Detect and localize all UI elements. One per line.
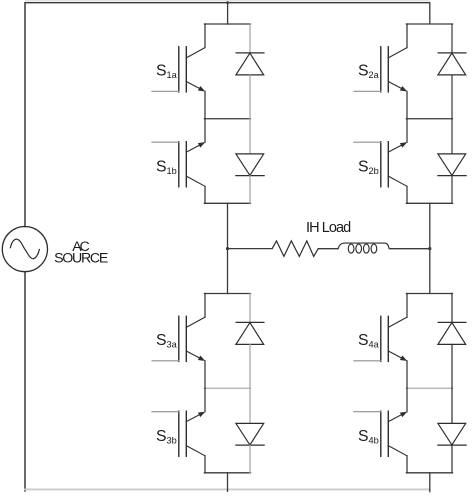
wire: top bus drop to S1 cell [227,3,229,24]
wire: right leg (S2 emitter bus to S4) [429,203,431,293]
diode D3b (antiparallel, lower) [236,388,264,473]
wire: resistor to inductor [318,248,338,250]
wire: AC source bottom lead [24,272,26,491]
wire: S4 cell top rail [406,293,452,295]
transistor S1b [152,119,205,204]
diode D1b (antiparallel, lower) [236,119,264,204]
diode D4a (antiparallel, upper) [438,294,466,389]
wire: S3 cell to bottom bus [227,473,229,492]
wire: S4 cell to bottom bus [429,473,431,492]
AC source V1 circle [2,227,47,272]
wire: S3 cell mid node [204,387,250,389]
diode D3a (antiparallel, upper) [236,294,264,389]
wire: S3 cell top rail [204,293,250,295]
transistor S2b [354,119,407,204]
svg-text:SOURCE: SOURCE [54,250,108,266]
transistor S3b [152,388,205,473]
diode D2b (antiparallel, lower) [438,119,466,204]
wire: inductor to right leg [389,248,430,250]
wire: S3 cell bottom rail [204,472,250,474]
transistor S2a [354,24,407,119]
transistor S3a [152,294,205,389]
resistor R (IH load) [272,241,318,257]
diode D4b (antiparallel, lower) [438,388,466,473]
wire: S4 cell mid node [406,387,452,389]
wire: left leg (S1 emitter bus to S3) [227,203,229,293]
wire: bottom bus [25,488,430,490]
wire: S1 cell mid node [204,118,250,120]
wire: S2 cell bottom rail [406,202,452,204]
wire: top bus from AC source to right leg [25,3,430,24]
transistor S4a [354,294,407,389]
wire: AC source top lead [24,3,26,227]
wire: S2 cell top rail [406,23,452,25]
diode D1a (antiparallel, upper) [236,24,264,119]
inductor L (work coil) [338,243,389,249]
node: left load junction [226,247,229,250]
wire: S4 cell bottom rail [406,472,452,474]
AC source sine wave [10,239,39,259]
svg-text:IH Load: IH Load [306,220,351,236]
wire: S1 cell bottom rail [204,202,250,204]
wire: load node A to resistor [228,248,273,250]
node: top bus junction [226,1,229,4]
node: right load junction [428,247,431,250]
transistor S4b [354,388,407,473]
wire: S2 cell mid node [406,118,452,120]
transistor S1a [152,24,205,119]
diode D2a (antiparallel, upper) [438,24,466,119]
wire: S1 cell top rail [204,23,250,25]
